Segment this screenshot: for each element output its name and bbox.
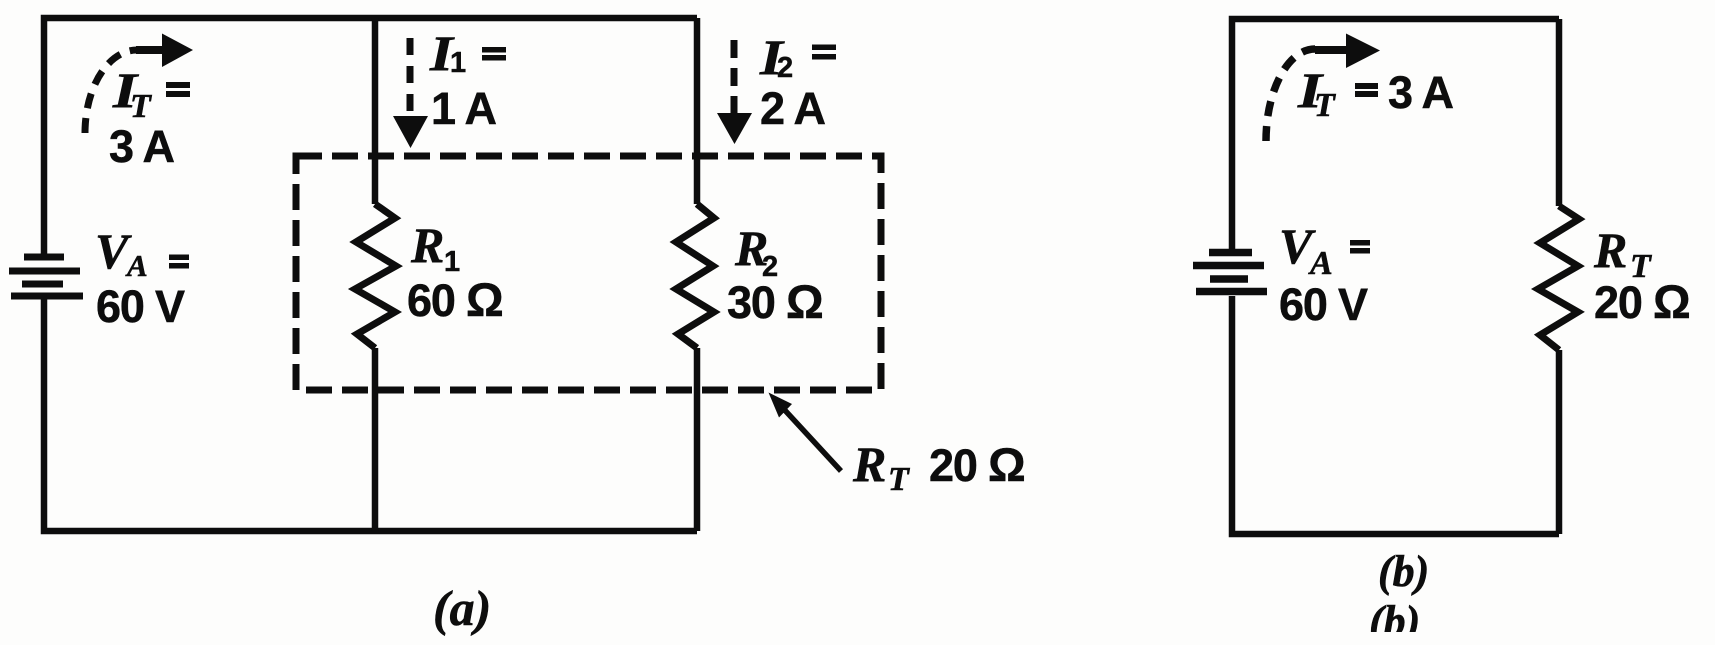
label I1 value 1 A	[431, 83, 496, 134]
label RT (b)	[1593, 222, 1652, 285]
svg-text:1: 1	[450, 47, 466, 79]
label I2 value 2 A	[760, 83, 825, 134]
wire: R2 branch top segment (right rail of a)	[694, 18, 701, 204]
resistor RT	[1538, 206, 1579, 350]
label I1	[429, 25, 466, 81]
wire: circuit (a) left rail below battery + bottom rail	[44, 296, 697, 531]
svg-text:R: R	[852, 436, 886, 492]
svg-text:2: 2	[777, 52, 792, 84]
pointer arrow to dashed box (RT callout): shaft	[781, 406, 841, 471]
resistor R2	[676, 204, 714, 348]
label R2 value 30 ohm	[727, 275, 822, 328]
current arrow I1: dashed shaft	[407, 38, 414, 114]
wire: circuit (a) top rail	[44, 18, 697, 254]
svg-text:T: T	[888, 461, 910, 498]
wire: circuit (b) left rail below battery + bottom rail	[1232, 296, 1559, 534]
current arrow IT (b): arrowhead	[1346, 34, 1380, 69]
svg-text:30 Ω: 30 Ω	[727, 275, 822, 328]
battery VA (a)	[9, 257, 83, 296]
current arrow IT (a): dashed arc	[85, 50, 137, 133]
equals sign after IT (a)	[166, 82, 190, 97]
dashed box marking RT equivalent	[296, 156, 881, 390]
equals sign after VA (b)	[1350, 240, 1370, 254]
label R2	[734, 220, 777, 283]
current arrow I2: dashed shaft	[731, 40, 738, 113]
current arrow IT (b): dashed arc	[1266, 49, 1315, 141]
battery VA (b)	[1193, 253, 1267, 292]
current arrow I1: arrowhead	[393, 116, 428, 148]
wire: circuit (b) top rail	[1232, 19, 1559, 249]
svg-text:R: R	[410, 217, 444, 273]
svg-text:2 A: 2 A	[760, 83, 825, 134]
svg-text:3 A: 3 A	[109, 121, 174, 172]
caption (b)	[1378, 547, 1429, 596]
svg-text:3 A: 3 A	[1388, 67, 1453, 118]
label RT value 20 ohm (b)	[1594, 275, 1689, 328]
equals sign after I2	[812, 45, 836, 60]
equals sign after VA (a)	[169, 255, 189, 269]
svg-text:(b): (b)	[1378, 547, 1429, 596]
label R1 value 60 ohm	[407, 273, 502, 326]
current arrow IT (b): solid shaft	[1315, 46, 1350, 54]
resistor R1	[355, 204, 396, 348]
label VA (b)	[1279, 218, 1333, 282]
pointer arrow to dashed box (RT callout): arrowhead	[769, 393, 793, 418]
svg-text:1: 1	[444, 246, 460, 278]
label RT callout (a)	[852, 436, 1024, 498]
label VA (a)	[95, 223, 148, 283]
caption (b) duplicated scan artifact (clipped)	[1369, 597, 1420, 645]
svg-text:20 Ω: 20 Ω	[1594, 275, 1689, 328]
equals sign after I1	[482, 47, 506, 61]
svg-text:1 A: 1 A	[431, 83, 496, 134]
label IT value 3 A (a)	[109, 121, 174, 172]
label IT (b) with value	[1297, 63, 1454, 124]
svg-text:(a): (a)	[433, 580, 491, 636]
svg-text:T: T	[130, 88, 152, 125]
wire: R2 branch bottom segment	[694, 348, 701, 531]
svg-text:60 Ω: 60 Ω	[407, 273, 502, 326]
current arrow IT (a): arrowhead	[162, 34, 193, 68]
current arrow I2: arrowhead	[717, 113, 752, 144]
svg-text:R: R	[1593, 222, 1627, 278]
wire: RT branch bottom segment	[1556, 350, 1563, 534]
label VA value 60 V (b)	[1279, 279, 1368, 330]
svg-text:A: A	[125, 248, 148, 283]
wire: R1 branch top segment	[372, 18, 379, 204]
equals sign after IT (b)	[1355, 83, 1378, 97]
label VA value 60 V (a)	[96, 281, 185, 332]
current arrow IT (a): solid shaft	[136, 46, 166, 54]
caption (a)	[433, 580, 491, 636]
svg-text:A: A	[1308, 245, 1333, 282]
svg-text:T: T	[1314, 87, 1336, 124]
label R1	[410, 217, 460, 278]
svg-text:60 V: 60 V	[1279, 279, 1368, 330]
svg-text:20 Ω: 20 Ω	[929, 438, 1024, 491]
label IT (a)	[112, 63, 152, 125]
label I2	[759, 29, 792, 85]
svg-text:60 V: 60 V	[96, 281, 185, 332]
wire: R1 branch bottom segment	[372, 348, 379, 531]
wire: RT branch top segment (right rail of b)	[1556, 19, 1563, 206]
